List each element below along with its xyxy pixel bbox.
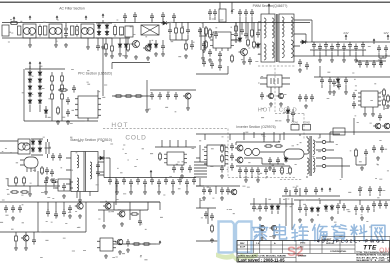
watermark book icon — [219, 222, 252, 253]
resistor chain R pfc d — [61, 74, 63, 83]
svg-text:SIZE A3: SIZE A3 — [326, 242, 335, 245]
ground gnd hv — [376, 156, 380, 160]
capacitor C snub — [214, 31, 218, 39]
resistor R rc2 — [383, 98, 385, 107]
resistor R sb row — [10, 191, 19, 193]
capacitor C hv1 — [372, 145, 376, 153]
capacitor C rc3 — [344, 77, 348, 85]
capacitor C rc toprow — [358, 60, 362, 68]
transformer T901 pin top — [268, 8, 270, 14]
wire inv d wires — [236, 166, 290, 178]
transformer T sb core — [84, 152, 86, 192]
ground gnd rc left — [332, 90, 336, 94]
capacitor C pfc mid — [161, 43, 165, 51]
svg-text:Inverter Section (OZ9976): Inverter Section (OZ9976) — [236, 125, 275, 129]
capacitor CY2 — [64, 31, 68, 39]
wire bl extra2 — [100, 202, 160, 210]
wire sheet top border — [0, 1, 390, 3]
wire bc stubs — [262, 198, 292, 236]
svg-text:12V: 12V — [383, 31, 388, 35]
wire br stubs — [306, 209, 374, 216]
transistor Q inv hb2 — [237, 157, 243, 163]
wire bc wires — [196, 198, 237, 241]
ground gnd pfc1 — [134, 55, 138, 59]
diode D PFC boost — [161, 22, 163, 24]
ground gnd bm1 — [102, 224, 106, 228]
wire fb top — [155, 140, 196, 147]
relay RL pwm — [219, 9, 226, 22]
transistor Q PFC mosfet — [133, 41, 140, 48]
IC U inverter ctrl — [361, 91, 378, 107]
transistor Q sw main — [241, 49, 248, 56]
wire sb under — [77, 192, 90, 199]
supply arrow 24V — [345, 35, 347, 40]
capacitor C m1 — [150, 92, 154, 100]
capacitor C inv row2 — [268, 157, 272, 165]
wire rc stubs — [322, 85, 346, 90]
wire inv ic leads — [196, 158, 204, 186]
resistor R inv row — [264, 145, 273, 147]
wire pwm top rail2 — [220, 2, 232, 10]
wire T inv leads — [304, 136, 322, 178]
ground gnd pfc2 — [146, 56, 150, 60]
diode D sb out — [98, 157, 100, 159]
wire br rail — [294, 200, 390, 206]
svg-text:DWG: DWG — [300, 243, 306, 245]
capacitor C rc right — [378, 113, 382, 121]
svg-text:CONFIDENTIAL: CONFIDENTIAL — [330, 250, 347, 253]
transformer T sb pins — [66, 158, 104, 184]
transistor Q rb1 — [375, 123, 381, 129]
ground gnd inv d1 — [244, 178, 248, 182]
capacitor C above rail — [123, 13, 127, 21]
arrow bm out — [156, 243, 160, 245]
ground gnd rc right — [386, 104, 390, 108]
wire sb low stubs — [16, 185, 54, 192]
ground gnd pwm2 — [242, 60, 246, 64]
wire sb rails — [0, 141, 18, 153]
optocoupler U opto1 — [267, 75, 282, 87]
wire sec rail1 — [300, 41, 390, 43]
text table row labels — [238, 239, 347, 258]
transformer T901 primary box — [261, 14, 275, 62]
capacitor C pwm d2 — [202, 41, 206, 49]
capacitor C ic2 — [66, 109, 70, 117]
diode D rc1 — [337, 78, 339, 80]
wire invb2 — [282, 188, 340, 196]
capacitor C inv row3 — [264, 167, 268, 175]
resistor R ac under — [105, 42, 107, 51]
ground gnd cold rail — [115, 190, 119, 194]
capacitor C sec end — [377, 45, 381, 53]
resistor R snub — [251, 28, 253, 38]
ground gnd o2 — [286, 118, 290, 122]
transformer T901 windings secondary — [282, 17, 284, 37]
resistor R inv d2 — [281, 166, 283, 175]
capacitor C pwm t2 — [238, 9, 242, 17]
capacitor C inv d1 — [238, 167, 242, 175]
wire AC arrows top — [13, 17, 15, 21]
ground gnd mid — [145, 108, 149, 112]
IC U bridge blob — [24, 157, 38, 168]
resistor R pwm3 — [235, 24, 237, 33]
ground gnd bc2 — [260, 236, 264, 240]
capacitor C pfc1 — [168, 27, 172, 35]
wire mid stub — [188, 66, 228, 106]
arrow pwm t — [231, 10, 233, 14]
svg-text:TTE: TTE — [363, 245, 377, 252]
IC U pfc L6562D — [78, 96, 98, 118]
wire ac stub2 — [120, 38, 126, 54]
diode D pfc mid — [149, 43, 151, 45]
capacitor C snub2 — [244, 31, 248, 39]
capacitor C inv grid — [230, 143, 234, 151]
capacitor C bl3 — [32, 237, 36, 245]
svg-text:24V: 24V — [343, 31, 348, 35]
ground gnd ac6 — [118, 52, 122, 56]
IC U fb comparator — [167, 152, 184, 165]
svg-text:COLD: COLD — [125, 135, 146, 142]
resistor R inv2 — [221, 154, 223, 163]
ground gnd bl2 — [78, 214, 82, 218]
capacitor C cm side — [96, 162, 100, 170]
arrow cold rail — [150, 171, 152, 175]
diode D br2 — [325, 205, 327, 207]
wire o stubs — [288, 106, 293, 122]
wire opto leads — [260, 78, 290, 94]
wire rc rail — [314, 66, 390, 77]
capacitor C sb3 — [52, 178, 56, 186]
svg-text:SCH 40-IPL32L-PWG1XG REV 1.0: SCH 40-IPL32L-PWG1XG REV 1.0 — [356, 256, 390, 259]
capacitor C bl1 — [4, 205, 8, 213]
resistor R sb mid — [41, 166, 43, 175]
capacitor C rc2 — [328, 77, 332, 85]
supply arrow right end — [373, 39, 375, 44]
capacitor C snub3 — [256, 30, 260, 38]
capacitor C bl extra — [46, 209, 50, 217]
capacitor C pwm low2 — [248, 57, 252, 65]
resistor R bm row — [132, 243, 141, 245]
ground gnd pfc mid — [154, 52, 158, 56]
ground gnd-ac1 — [64, 43, 68, 47]
wire rc stubs2 — [354, 97, 384, 135]
capacitor CX2 — [44, 26, 47, 35]
transistor Q o1 — [268, 93, 273, 98]
choke LF3 — [81, 24, 94, 38]
capacitor C invb2 — [284, 187, 288, 195]
fuse F1 — [11, 22, 17, 25]
transistor Q invb — [231, 189, 237, 195]
capacitor C ac under — [96, 43, 100, 51]
transistor Q inv hb1 — [237, 145, 243, 151]
resistor R m1 — [114, 95, 123, 97]
wire inv vert set — [244, 132, 284, 142]
resistor R pwm1 — [205, 26, 207, 36]
resistor R2 — [76, 25, 78, 37]
choke LF sb — [18, 139, 30, 154]
wire sec vert from T — [300, 20, 390, 56]
wire AC bottom rail — [2, 37, 130, 39]
capacitor C bm1 — [138, 218, 142, 226]
wire tr low stubs — [360, 194, 380, 196]
resistor R pfc mid — [185, 42, 187, 51]
zener ZD pfc — [45, 109, 47, 111]
capacitor C bulk — [201, 22, 205, 56]
diode D bc1 — [271, 205, 273, 207]
ground gnd invb — [202, 196, 206, 200]
wire sb low rails — [8, 171, 60, 186]
capacitor bank C secondary — [312, 42, 316, 50]
wire bl extra — [48, 202, 64, 212]
capacitor C pwm1 — [198, 27, 202, 35]
resistor R m3 — [134, 95, 143, 97]
capacitor C sb bulk — [46, 139, 49, 158]
wire ac stub verticals — [30, 23, 103, 45]
ground gnd pwm1 — [218, 58, 222, 62]
wire bl rail1 — [0, 202, 160, 232]
svg-text:PWM Section(Q4667?): PWM Section(Q4667?) — [253, 4, 288, 8]
IC U FSQ510 — [58, 179, 70, 191]
diode D snub — [239, 37, 241, 39]
capacitor C sb4 — [62, 183, 66, 191]
capacitor C pfc2 — [186, 27, 190, 35]
ground gnd rc — [328, 90, 332, 94]
text TTE address — [356, 252, 390, 262]
capacitor C fb2 — [180, 165, 184, 173]
ground gnd bl1 — [11, 216, 15, 220]
capacitor C pwm2 — [218, 51, 222, 59]
watermark text blue — [253, 225, 268, 242]
wire mid vert — [146, 80, 148, 108]
transistor Q PFC mosfet2 — [145, 45, 151, 51]
ground gnd inv1 — [220, 174, 224, 178]
connector CCFL pins — [322, 140, 325, 143]
arrow invb — [321, 188, 323, 192]
svg-text:SHENZHEN GUANGDONG P.R. CHINA: SHENZHEN GUANGDONG P.R. CHINA — [356, 254, 390, 257]
wire pfc bottom — [24, 69, 98, 121]
capacitor C rc row2 — [298, 94, 302, 102]
wire inv out right — [330, 132, 390, 178]
wire inv hv — [236, 142, 284, 164]
resistor R m2 — [124, 95, 133, 97]
wire pfc mid stubs — [150, 40, 192, 52]
wire cm rail — [104, 150, 196, 205]
transistor Q rb2 — [384, 123, 390, 129]
capacitor C br2 — [336, 203, 340, 211]
connector CON rc corner — [333, 128, 345, 135]
wire isolation dashed right — [258, 66, 304, 140]
wire bm wires — [98, 202, 148, 222]
resistor R discharge — [39, 25, 41, 37]
choke LF1 — [23, 24, 36, 38]
resistor R bleed — [209, 28, 211, 39]
wire bm row — [113, 243, 156, 245]
transistor Q bm1 — [105, 203, 111, 209]
ground gnd ac under — [104, 52, 108, 56]
transistor Q bl2 — [23, 235, 29, 241]
wire mid row — [112, 90, 196, 96]
ground gnd sb2 — [28, 192, 32, 196]
ground gnd pwm d — [202, 48, 206, 52]
wire pwm d stubs — [204, 22, 254, 48]
capacitor C m2 — [158, 92, 162, 100]
connector CON inv2 — [303, 125, 311, 131]
resistor R inv1 — [221, 144, 223, 153]
diode chain D pfc a — [29, 71, 31, 73]
capacitor C inv1 — [220, 165, 224, 173]
relay RL901 — [125, 26, 133, 37]
transformer T inv core — [310, 136, 311, 176]
wire secondary stems — [313, 50, 315, 56]
capacitor C fb3 — [172, 165, 176, 173]
transformer T inv body — [284, 149, 304, 159]
ground gnd-ac5 — [101, 45, 105, 49]
resistor R ic1 — [57, 106, 59, 115]
wire inverter HV bus — [196, 134, 340, 142]
resistor R rc1 — [383, 88, 385, 97]
svg-text:DRAWN: DRAWN — [298, 255, 307, 258]
svg-text:AC Filter Section: AC Filter Section — [59, 7, 85, 11]
svg-text:Last saved : 2008-11-05: Last saved : 2008-11-05 — [238, 258, 285, 263]
table title block — [237, 241, 390, 263]
diode D inv1 — [285, 157, 287, 159]
capacitor C mid right — [298, 59, 302, 67]
capacitor C bm2 — [126, 239, 130, 247]
supply arrow 12V — [387, 35, 389, 40]
capacitor C br4 — [372, 201, 376, 209]
transformer T901 core — [277, 14, 278, 62]
diode D ac2 — [119, 43, 121, 45]
capacitor C pwm d1 — [234, 31, 238, 39]
capacitor C sb mid — [45, 167, 49, 175]
capacitor C pwm low — [202, 59, 206, 67]
capacitor C res1 — [244, 148, 251, 155]
wire sec rail2 — [310, 49, 366, 51]
svg-text:SHEET 1 OF 1 SIZE A3 2008: SHEET 1 OF 1 SIZE A3 2008 — [356, 259, 390, 262]
wire ac under stubs — [98, 38, 112, 54]
capacitor C sb pre — [51, 153, 55, 161]
connector AC input — [2, 25, 9, 36]
ground gnd ic2 — [56, 120, 60, 124]
ground gnd bulk — [201, 56, 205, 60]
zener ZD o1 — [287, 109, 289, 111]
svg-text:DWG NO APD CHK MODEL NAME: DWG NO APD CHK MODEL NAME — [238, 255, 287, 258]
capacitor C br mid — [204, 211, 208, 219]
ground gnd br1 — [298, 218, 302, 222]
ground gnd inv out — [360, 166, 364, 170]
resistor R pwm low — [231, 54, 233, 63]
capacitor C br3 — [354, 205, 358, 213]
ground gnd br2 — [330, 216, 334, 220]
ground gnd o1 — [269, 102, 273, 106]
capacitor C rc1 — [320, 77, 324, 85]
wire misc top — [103, 42, 150, 96]
resistor R sb2 — [23, 176, 25, 185]
thermistor NTC — [114, 25, 116, 37]
capacitor CX3 — [71, 26, 74, 35]
svg-text:Stand-by Section (FSQ510): Stand-by Section (FSQ510) — [70, 138, 112, 142]
svg-text:REV: REV — [240, 243, 245, 245]
diode D pwm d1 — [257, 43, 259, 45]
capacitor C inv out — [364, 149, 368, 157]
resistor R sense — [127, 42, 129, 52]
ground gnd inv row — [268, 166, 272, 170]
wire pwm t stubs — [210, 17, 252, 22]
choke LF2 — [49, 24, 62, 38]
wire above rail stubs — [125, 19, 174, 23]
capacitor C sb2 — [44, 178, 48, 186]
ground gnd secondary bank — [318, 58, 322, 62]
ground gnd br3 — [360, 216, 364, 220]
resistor R bm1 — [130, 213, 139, 215]
IC U bm regulator — [100, 238, 113, 251]
diode bridge D901 — [98, 24, 100, 26]
diode chain D pfc b — [39, 71, 41, 73]
ground gnd sec end — [379, 59, 383, 63]
wire bl stubs — [16, 232, 34, 246]
resistor R pwm2 — [205, 40, 207, 49]
capacitor C pwm t1 — [208, 9, 212, 17]
transistor Q bc2 — [271, 225, 276, 230]
wire PFC top rail — [130, 22, 310, 24]
capacitor C fb1 — [188, 165, 192, 173]
transistor Q bm2 — [119, 211, 125, 217]
ground gnd sb under — [78, 198, 82, 202]
capacitor C o1 — [260, 92, 264, 100]
IC U pwm Q4667 — [213, 32, 231, 48]
capacitor C o2 — [291, 110, 295, 118]
ground gnd rc2 — [304, 104, 308, 108]
resistor R fb1 — [159, 152, 161, 161]
capacitor C input — [120, 27, 124, 35]
capacitor C ic1 — [66, 97, 70, 105]
wire AC top rail — [2, 22, 130, 24]
capacitor C rc left — [332, 79, 336, 87]
resistor R pfc chain2 — [181, 26, 183, 35]
wire inv out2 — [356, 157, 366, 165]
resistor chain R pfc c — [51, 74, 53, 83]
svg-text:HOT: HOT — [111, 122, 128, 129]
wire cm stems — [116, 185, 118, 190]
transistor Q bl1 — [77, 203, 83, 209]
transistor Q bc mid — [221, 231, 226, 236]
svg-text:TTE TECHNOLOGY (SHENZHEN) CO L: TTE TECHNOLOGY (SHENZHEN) CO LTD — [356, 252, 390, 254]
transistor Q o2 — [278, 93, 283, 98]
ground gnd sb mid — [45, 176, 49, 180]
wire sec end stubs — [379, 53, 386, 59]
resistor R bl1 — [15, 234, 17, 243]
ground gnd bm2 — [104, 254, 108, 258]
connector CON inv1 — [291, 125, 299, 131]
capacitor C bl2 — [68, 205, 72, 213]
transformer T901 windings primary — [272, 18, 274, 38]
resistor R inv out — [355, 148, 357, 158]
resistor R rc right — [387, 94, 389, 103]
diode D br1 — [311, 207, 313, 209]
ground gnd-ac2 — [28, 43, 32, 47]
svg-text:PFC Section (L6562D): PFC Section (L6562D) — [78, 72, 112, 76]
svg-text:CON1: CON1 — [292, 122, 299, 125]
svg-text:40-IP: 40-IP — [240, 246, 246, 249]
wire T901 leads — [258, 20, 300, 56]
wire pfc chains top — [25, 66, 65, 69]
transistor Q bc1 — [259, 225, 264, 230]
capacitor C br1 — [298, 205, 302, 213]
capacitor C m3 — [166, 92, 170, 100]
capacitor CY1 — [64, 25, 68, 33]
wire isolation dashed left — [103, 129, 295, 178]
svg-text:NO.: NO. — [300, 247, 304, 249]
